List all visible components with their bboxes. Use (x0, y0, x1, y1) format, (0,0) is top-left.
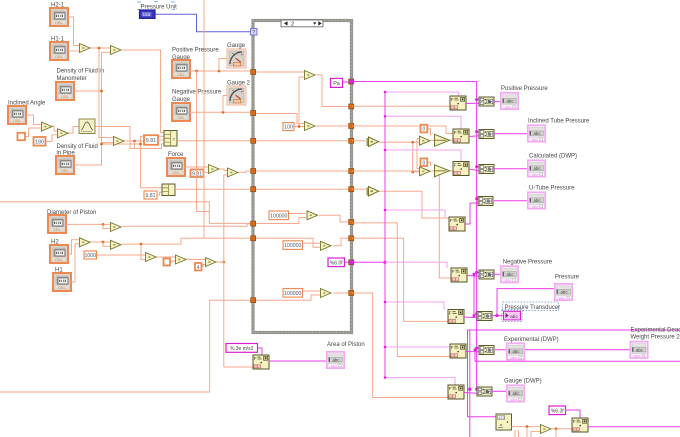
indicator Area of Piston (327, 352, 344, 369)
svg-text:Positive Pressure: Positive Pressure (172, 48, 219, 54)
junction cmp branch2 (411, 171, 414, 174)
wire fmt r6 (385, 302, 444, 310)
svg-text:9.81: 9.81 (146, 138, 157, 144)
wire F9 to C9 (466, 351, 479, 353)
wire TF2 out to case (238, 171, 251, 172)
wire C5 to Negative Pressure (494, 273, 501, 275)
wire Force to multiply (185, 166, 208, 168)
multiply T3 (42, 122, 53, 131)
concatenate strings C9 (479, 346, 494, 355)
wire N1 out (512, 426, 541, 428)
indicator Pressure Transducer (selected) (502, 310, 522, 322)
svg-text:Calculated (DWP): Calculated (DWP) (529, 154, 577, 160)
tunnel right M5 (349, 291, 354, 296)
wire const 180 to T4 (46, 135, 58, 142)
format into string F8 (448, 310, 464, 324)
svg-text:%6.3f: %6.3f (551, 408, 564, 414)
wire T2 out to bundle (121, 50, 164, 133)
junction Pa C3 (475, 165, 478, 168)
wire H1-1 to subtract (68, 50, 79, 52)
indicator Calculated (DWP) (528, 160, 545, 177)
divide T bottom (541, 425, 552, 434)
multiply T2 (111, 46, 122, 55)
wire Diameter of Piston to T7a (66, 223, 110, 225)
wire PPG up to Gauge (219, 59, 227, 72)
wire T10 out (215, 261, 224, 263)
constant 9.81 force (191, 170, 204, 178)
wire T8 to T9 (155, 256, 175, 258)
wire 100 to M2 (294, 126, 305, 128)
constant 0b (421, 158, 428, 166)
wire A2 to B2 (431, 170, 434, 172)
wire 9.81 to bundle (158, 139, 164, 141)
wire T6 out (89, 241, 110, 243)
junction T10 branch (223, 261, 226, 264)
control Negative Pressure Gauge (172, 103, 190, 121)
select B1 (435, 134, 450, 146)
wire fmt r2 (385, 116, 461, 129)
constant 100000c (283, 289, 303, 298)
constant 100 (283, 123, 294, 131)
junction T7b branch (140, 243, 143, 246)
divide T10 (206, 258, 217, 267)
svg-text:%6.0f: %6.0f (330, 260, 343, 266)
junction fmt branch 116.3 (384, 115, 386, 117)
concatenate strings C5 (479, 270, 494, 279)
svg-text:100000: 100000 (270, 213, 287, 219)
wire B1 to F2 (450, 139, 453, 141)
junction Pa C10 (475, 388, 478, 391)
wire case hydro pass (256, 140, 349, 142)
wire fmt vertical (384, 92, 386, 378)
junction Pa C2 (475, 130, 478, 133)
wire T1 branch down to multiply T5 (99, 48, 113, 138)
wire F6 to Area of Piston (269, 360, 326, 362)
svg-text:Experimental Dead: Experimental Dead (631, 327, 680, 333)
wire T5 out (124, 140, 144, 142)
wire down b (530, 431, 532, 437)
wire C3 to Calculated DWP (494, 168, 527, 170)
format into string F2 (453, 129, 469, 143)
svg-text:Density of Fluid: Density of Fluid (57, 144, 98, 150)
control Density of Fluid in Pipe (56, 156, 74, 174)
tunnel left PPG (251, 70, 256, 75)
multiply M3 (307, 211, 318, 220)
format into string F10 (448, 385, 464, 399)
indicator U-Tube Pressure (528, 192, 545, 209)
control H1-1 (50, 42, 68, 60)
tunnel left bundle2 (251, 187, 256, 192)
wire DFP out (74, 164, 102, 166)
wire empty const to T3 (25, 128, 41, 137)
format into string F3 (453, 162, 469, 176)
wire area fmt const (258, 348, 263, 355)
junction PPG branch2 (195, 70, 198, 73)
wire blue Pressure Unit to case selector (156, 14, 251, 32)
wire rowB to F8 (353, 238, 449, 321)
wire case b2 pass (256, 188, 349, 190)
wire bundle B1 out to case (177, 140, 251, 142)
junction N1 branch (526, 425, 529, 428)
wire hydro row to cmp (353, 140, 367, 142)
junction T6 branch (102, 241, 105, 244)
wire fmt r8 (385, 378, 455, 386)
concatenate strings C2 (479, 130, 494, 139)
wire case rowC to M5 (256, 295, 320, 300)
wire PPG branch down (197, 71, 210, 212)
wire down a (526, 427, 528, 437)
wire case r113 to M2 (256, 114, 304, 124)
case structure frame (253, 21, 352, 333)
constant 100000b (283, 241, 303, 250)
tunnel right M4 (349, 236, 354, 241)
wire tbot low in (531, 430, 540, 432)
constant 0a (421, 125, 428, 133)
wire C8 out (492, 315, 504, 317)
junction Pa C5 (475, 271, 478, 274)
svg-text:%.3e m\s2: %.3e m\s2 (230, 346, 254, 352)
tunnel right M1 (349, 104, 354, 109)
wire 100000c to M5 (303, 290, 321, 292)
svg-text:Gauge: Gauge (172, 97, 191, 103)
format into string F1 (450, 96, 466, 110)
wire 1000 out to T8 (97, 254, 146, 256)
wire F2 to C2 (469, 135, 479, 138)
multiply T F1 (209, 165, 220, 174)
wire C2 to Inclined Tube Pressure (494, 133, 527, 135)
svg-text:Gauge 2: Gauge 2 (227, 80, 251, 86)
wire Pa stub C3 (477, 166, 479, 168)
wire area vertical (223, 175, 225, 367)
concatenate strings C1 (479, 97, 494, 106)
wire C8 up to Pressure (497, 289, 554, 316)
wire fmt r3 (385, 150, 461, 162)
wire Inclined Angle to T3 (26, 115, 41, 125)
wire Pa stub C8 (477, 313, 479, 315)
control H2-1 (50, 8, 68, 26)
divide T4 (58, 129, 69, 138)
control Force (167, 158, 185, 176)
wire zero net vertical (416, 139, 418, 169)
svg-text:abc: abc (510, 314, 518, 320)
indicator Gauge 2 (227, 86, 246, 105)
coerce triangle cmp1 (367, 137, 379, 147)
svg-text:Pressure: Pressure (555, 274, 580, 280)
junction NPG branch (222, 111, 225, 114)
concatenate strings C10 (477, 387, 492, 396)
wire rowA to F9 (353, 223, 451, 357)
junction bundle branch (139, 143, 142, 146)
control H1 (53, 273, 71, 291)
wire M3 out (319, 215, 349, 222)
wire long wire A (0, 202, 251, 224)
tunnel left rowC (251, 298, 256, 303)
wire T3 to T4 (51, 126, 57, 131)
junction fmt branch 302 (384, 301, 386, 303)
format into string F7 (572, 418, 588, 432)
case selector ? tunnel (251, 29, 257, 36)
subtract T6 (80, 238, 91, 247)
junction T5 branch (133, 140, 136, 143)
select B2 (435, 165, 450, 177)
constant e2 small (164, 259, 171, 266)
tunnel left rowA (251, 221, 256, 226)
multiply T F2 (228, 168, 239, 177)
svg-text:U-Tube Pressure: U-Tube Pressure (529, 185, 575, 191)
case selector label (281, 20, 323, 28)
wire Pa long (353, 81, 477, 83)
indicator Positive Pressure (501, 93, 518, 110)
junction cmp branch (411, 141, 414, 144)
wire DFM vertical (101, 52, 103, 165)
wire DP branch to T7a low (103, 224, 110, 228)
svg-text:Density of Fluid in: Density of Fluid in (57, 69, 105, 75)
junction Pa C9 (475, 347, 478, 350)
tunnel right M3 (349, 220, 354, 225)
wire down c (555, 429, 557, 437)
wire C10 to Gauge DWP (492, 390, 506, 392)
junction C8 tap (473, 314, 476, 317)
wire H2 to T6 (68, 240, 79, 254)
svg-text:Positive Pressure: Positive Pressure (501, 86, 548, 92)
svg-text:Experimental (DWP): Experimental (DWP) (504, 337, 559, 343)
indicator Gauge (227, 49, 246, 68)
control Pressure Unit (enum) (140, 10, 156, 18)
indicator Inclined Tube Pressure (528, 125, 545, 142)
bundle B2 (162, 184, 175, 196)
control Inclined Angle (8, 106, 26, 124)
svg-text:100000: 100000 (284, 291, 301, 297)
wire T7b down to T8 (141, 244, 145, 260)
wire Pa stub C5 (477, 271, 479, 273)
format into string F4 (449, 217, 465, 231)
indicator Pressure (555, 284, 572, 301)
string to number node N1 (496, 414, 512, 430)
junction PPG branch (218, 70, 221, 73)
wire mid vertical pair (473, 274, 475, 315)
svg-text:100000: 100000 (284, 243, 301, 249)
control Density of Fluid in Manometer (56, 82, 74, 100)
svg-text:100: 100 (284, 125, 293, 131)
wire 0a to select (428, 129, 431, 136)
constant 9.81 b2 (144, 191, 157, 199)
wire F1 to C1 (466, 102, 479, 104)
format into string F5 (451, 268, 467, 282)
junction 100 branch (298, 125, 301, 128)
string constant Pa (331, 78, 343, 87)
wire case force pass (256, 170, 349, 172)
wire 9.81b2 to bundle2 (157, 192, 162, 195)
format into string F6 (253, 355, 269, 369)
junction fmt branch 377.6 (384, 376, 386, 378)
wire DFM vertical branch (102, 51, 111, 53)
wire cmp2 out to F4 (379, 191, 449, 218)
svg-text:Weight Pressure 2: Weight Pressure 2 (631, 335, 680, 341)
wire fmt r7 (385, 346, 450, 348)
wire const4 to T10 (202, 265, 206, 267)
svg-text:Pressure Transducer: Pressure Transducer (505, 305, 561, 311)
wire 100 branch up to M1 (299, 77, 304, 127)
indicator Gauge (DWP) (507, 385, 524, 402)
string constant pct 6.0f (328, 258, 345, 267)
sine function (79, 119, 95, 134)
wire Tbot out to F7 (552, 428, 573, 430)
wire fmt const out (345, 261, 349, 263)
wire long magenta low (475, 350, 680, 361)
wire Pa stub C2 (477, 131, 479, 133)
junction C8 branch (496, 314, 499, 317)
junction DFM junction (100, 90, 103, 93)
wire fmt r5 (385, 262, 447, 268)
multiply T9 (176, 255, 187, 264)
wire Pa trunk vertical (476, 82, 478, 390)
wire NPG up to Gauge 2 (223, 96, 227, 113)
wire branch down to bundle2 (141, 144, 163, 188)
junction Pa C8 (475, 312, 478, 315)
multiply T5 (114, 137, 125, 146)
tunnel left force (251, 169, 256, 174)
string constant pct 6.3f (549, 406, 566, 415)
constant 4 (195, 263, 202, 271)
concatenate strings C3 (479, 165, 494, 174)
divide T8 (146, 253, 157, 262)
svg-text:0: 0 (423, 160, 426, 166)
tunnel right Pa (349, 79, 354, 84)
junction C5 tap (473, 273, 476, 276)
junction fmt branch 150 (384, 149, 386, 151)
indicator Experimental Dead Weight Pressure 2 (630, 342, 647, 359)
wire Pa stub C9 (477, 347, 479, 349)
wire F7 out long (588, 426, 680, 428)
wire C4 to U-Tube Pressure (494, 200, 527, 202)
multiply M2 (305, 122, 316, 131)
svg-text:2: 2 (291, 22, 294, 28)
junction C9 tap (474, 348, 477, 351)
wire cmp vertical (413, 142, 419, 172)
tunnel left rowB (251, 236, 256, 241)
wire NPG to case (190, 111, 251, 113)
wire F3 to C3 (469, 169, 479, 171)
wire M1 row to F1 (353, 105, 451, 107)
wire long wire B (0, 300, 251, 392)
wire F10 to C10 (464, 392, 477, 395)
wire 100000a to M3 (289, 213, 307, 215)
junction y144 junction (100, 143, 103, 146)
svg-text:9.81: 9.81 (145, 193, 155, 199)
string constant pct .3e m2 (226, 344, 258, 353)
tunnel left hydro (251, 138, 256, 143)
wire M4 out (333, 238, 349, 246)
wire T7b out (122, 238, 251, 244)
wire fmt r4 (385, 210, 445, 217)
wire subtract T1 out (89, 47, 110, 49)
wire sine out under-route to bundle (95, 127, 164, 149)
wire N1 under inputs a (514, 430, 516, 437)
svg-text:Manometer: Manometer (57, 76, 87, 82)
wire fmt r1 (385, 92, 459, 96)
wire bundle B2 out to case (175, 188, 251, 190)
coerce triangle cmp2 (367, 187, 379, 197)
wire F8 to C8 (464, 316, 477, 319)
constant 9.81 selected (144, 135, 158, 145)
wire Pa stub C1 (477, 99, 479, 101)
wire force row to F5 (353, 171, 452, 278)
wire rowC to F10 (353, 293, 450, 398)
junction fmt branch 210 (384, 209, 386, 211)
svg-text:0: 0 (423, 127, 426, 133)
tunnel right pass hydro (349, 138, 354, 143)
wire PPG to case (190, 70, 251, 72)
wire const e2 to T9 (171, 261, 176, 262)
svg-text:Pa: Pa (333, 81, 340, 87)
wire F5 to C5 (467, 275, 479, 278)
junction Pa C4 (475, 197, 478, 200)
control H2 (50, 245, 68, 263)
wire H1 to T6 (71, 244, 79, 282)
wire 9.81 to multiply (205, 171, 209, 173)
svg-text:U16: U16 (143, 13, 150, 17)
concatenate strings C8 (477, 312, 492, 321)
wire 63f to F7 (566, 410, 581, 418)
constant empty (selected) (18, 133, 26, 140)
max min A2 (420, 167, 431, 176)
svg-text:Gauge (DWP): Gauge (DWP) (504, 379, 542, 385)
tunnel right M2 (349, 124, 354, 129)
wire M2 row to F2 (353, 126, 454, 134)
wire zero stub2 (417, 168, 419, 170)
wire C9 to Experimental row (495, 349, 630, 351)
svg-text:Gauge: Gauge (227, 43, 246, 49)
selection box Pressure Transducer label (503, 302, 559, 311)
wire C1 to Positive Pressure (494, 101, 501, 103)
wire T7a out to case (122, 224, 251, 227)
wire fmt trunk (353, 261, 386, 263)
wire T9 to T10 (184, 258, 205, 261)
indicator Negative Pressure (501, 266, 518, 283)
multiply T7b (111, 240, 122, 249)
format into string F9 (450, 344, 466, 358)
wire cmp1 out (379, 141, 419, 143)
multiply T7a (111, 223, 122, 232)
wire case rowA to M3 (256, 218, 306, 224)
selection marks around Pressure Unit (137, 2, 175, 10)
wire M5 out (333, 292, 349, 294)
wire M2 out (316, 125, 349, 127)
wire case r72 to M1 (256, 71, 304, 73)
wire zero stub1 (417, 138, 419, 140)
wire long magenta mid (468, 330, 680, 417)
wire case rowB to M4 (256, 238, 320, 247)
tunnel left NPG (251, 111, 256, 116)
wire A1 to B1 (431, 140, 434, 142)
wire T6 branch to T7b low (103, 242, 110, 246)
svg-text:4: 4 (197, 265, 200, 271)
tunnel right pass b2 (349, 187, 354, 192)
junction T1 branch (98, 47, 101, 50)
wire area branch to TF2 (224, 174, 227, 176)
svg-text:Area of Piston: Area of Piston (327, 342, 365, 348)
wire T4 to sine (67, 127, 79, 134)
tunnel right fmt str (349, 260, 354, 265)
junction Pa C1 (475, 98, 478, 101)
junction C10 tap (468, 388, 471, 391)
wire DFM down to T5 (102, 142, 114, 144)
wire branch y144 to bundles (102, 136, 165, 144)
wire 100000b to M4 (303, 242, 321, 244)
wire area to F6 (224, 366, 253, 368)
multiply M5 (321, 289, 332, 298)
tunnel right pass force (349, 169, 354, 174)
